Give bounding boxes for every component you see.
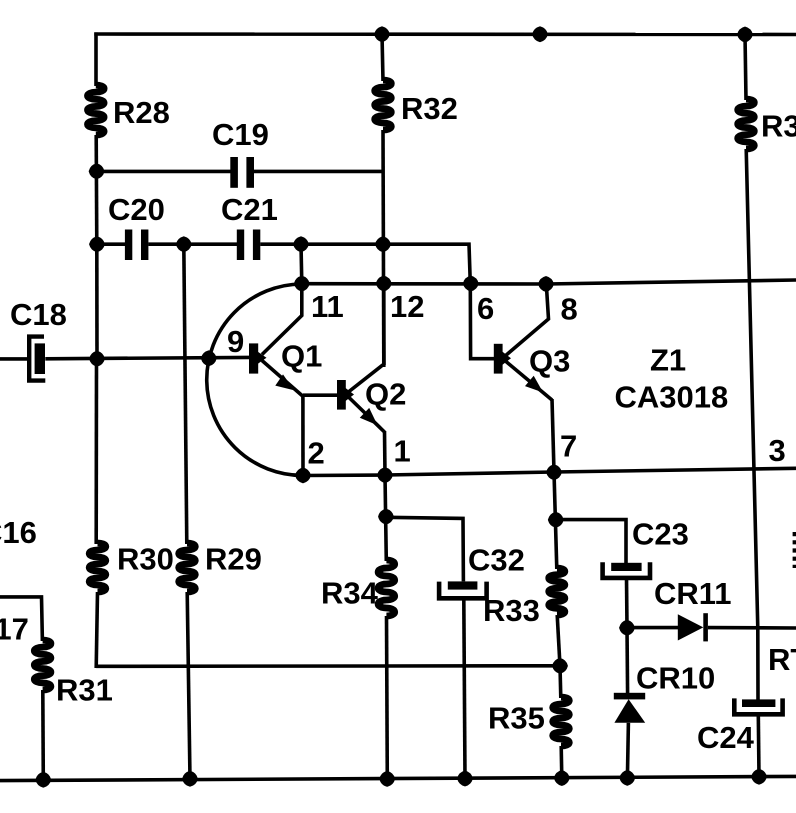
node CR11/CR10 junction <box>620 621 634 635</box>
wire C23 lower lead to CR11 node <box>625 578 629 628</box>
wire Z1 boundary arc around Q1 <box>207 284 303 475</box>
capacitor C23 bottom plate bracket <box>603 562 650 578</box>
svg-text:C17: C17 <box>0 612 29 647</box>
wire V1 R28 to C21 line <box>94 135 98 246</box>
node junction C21 line at pin-11 branch <box>294 237 308 251</box>
arrow Q3 emitter <box>525 376 543 393</box>
svg-text:2: 2 <box>308 436 325 471</box>
diode CR10 <box>614 693 645 700</box>
transistor Q3 base bar <box>494 344 503 374</box>
capacitor C32 top plate <box>448 581 478 589</box>
svg-text:R29: R29 <box>205 542 262 577</box>
node top-rail junction at R36 <box>738 28 752 42</box>
wire CR10 upper lead <box>625 628 629 694</box>
svg-text:CA3018: CA3018 <box>615 380 729 415</box>
capacitor C18 <box>29 337 45 381</box>
wire Q1 collector to pin 11 <box>262 284 302 355</box>
svg-text:C24: C24 <box>697 720 755 755</box>
svg-text:R36: R36 <box>761 109 796 144</box>
wire R36 vertical from rail <box>745 35 746 101</box>
svg-text:C16: C16 <box>0 515 37 550</box>
wire C19 line right segment to R32 vertical <box>254 170 383 174</box>
diode CR11 <box>678 614 704 640</box>
svg-text:1: 1 <box>394 434 411 469</box>
wire V2 below R29 to bottom rail <box>187 592 190 779</box>
wire pin-7 vertical to R33 <box>554 472 557 569</box>
wire C20 line: V1 to C20 <box>97 242 125 246</box>
resistor R32 <box>375 80 392 130</box>
wire Q2 collector to pin 12 <box>349 284 384 392</box>
svg-text:Q2: Q2 <box>365 377 406 412</box>
wire C20 to node <box>148 242 237 246</box>
node junction C20 line on V1 <box>90 237 104 251</box>
wire R31 to bottom rail <box>41 690 45 780</box>
node pin 6 <box>464 277 478 291</box>
svg-text:R32: R32 <box>401 91 458 126</box>
wire CR11 cathode lead to right edge <box>708 626 796 630</box>
wire pin 1/2/7/3 node line <box>303 468 796 475</box>
svg-text:CR10: CR10 <box>636 661 715 696</box>
node bottom rail CR10 <box>621 771 635 785</box>
resistor R34 <box>378 560 395 616</box>
wire C21 to pin6 corner <box>260 244 470 284</box>
svg-text:7: 7 <box>560 429 577 464</box>
node pin 1 <box>378 468 392 482</box>
capacitor C24 bottom plate bracket <box>734 698 782 714</box>
svg-text:Q1: Q1 <box>281 339 322 374</box>
node input line at arc (pin 9) <box>202 352 216 366</box>
wire R33 to junction <box>557 615 560 666</box>
wire R32 vertical from rail <box>382 34 383 81</box>
transistor Q2 junction wedge <box>346 388 355 401</box>
svg-text:R35: R35 <box>488 701 545 736</box>
node junction C20/C21 (R29 branch) <box>177 237 191 251</box>
arrow Q1 emitter <box>275 374 294 390</box>
node pin 12 <box>377 277 391 291</box>
wire Q2 emitter diagonal <box>349 398 385 433</box>
wire Q1 emitter to Q2 base <box>303 393 338 397</box>
wire R29 vertical V2 <box>184 244 187 544</box>
svg-text:R28: R28 <box>113 95 170 130</box>
wire bottom ground rail <box>0 776 796 780</box>
node pin 2 <box>296 469 310 483</box>
svg-text:R30: R30 <box>117 542 174 577</box>
wire V1 C20 line to input line <box>95 244 99 360</box>
capacitor C20 <box>125 230 132 261</box>
wire Q3 emitter diagonal <box>506 362 552 401</box>
wire pin-11 stub <box>299 244 303 283</box>
wire C32 lower lead to bottom rail <box>464 598 465 778</box>
wire junction to R35 <box>558 666 562 698</box>
node junction C21 line at R32 vertical <box>376 237 390 251</box>
node bottom rail R35 <box>555 771 569 785</box>
resistor R31 <box>34 640 51 690</box>
node top-rail junction at pin-8 branch <box>533 27 547 41</box>
wire R34 to bottom rail <box>385 616 389 779</box>
node R33/R35 junction <box>553 659 567 673</box>
arrow Q2 emitter <box>360 408 378 425</box>
wire R30 bottom to corner <box>96 592 97 668</box>
node pin 8 <box>539 277 553 291</box>
capacitor C24 top plate <box>742 699 775 707</box>
dashed edge marks (clipped component) <box>793 532 796 568</box>
svg-text:Q3: Q3 <box>529 344 570 379</box>
transistor Q1 junction wedge <box>258 352 267 365</box>
wire Q1 emitter diagonal <box>262 361 303 397</box>
svg-text:C20: C20 <box>108 192 165 227</box>
wire C32 branch horizontal <box>386 517 463 581</box>
svg-text:12: 12 <box>390 289 424 324</box>
resistor R29 <box>179 543 196 592</box>
node bottom rail R29 <box>183 772 197 786</box>
wire pin-1 vertical down to R34 <box>385 475 386 561</box>
wire input lead left of C18 <box>0 357 28 361</box>
wire pin-6 vertical and Q3 base lead <box>470 284 494 359</box>
svg-text:R33: R33 <box>483 593 540 628</box>
capacitor C21 <box>237 230 244 261</box>
svg-text:Z1: Z1 <box>650 343 686 378</box>
node junction C19 line on V1 <box>90 165 104 179</box>
wire C23 branch horizontal <box>556 520 626 563</box>
svg-text:8: 8 <box>561 292 578 327</box>
svg-text:C23: C23 <box>632 517 689 552</box>
svg-text:CR11: CR11 <box>654 576 732 611</box>
wire C24 lower lead to bottom rail <box>756 714 760 776</box>
wire R35 to bottom rail <box>559 746 563 778</box>
wire top supply rail <box>94 32 796 36</box>
wire pin-8 horizontal line <box>302 280 796 284</box>
wire CR11 anode lead <box>627 626 679 630</box>
node bottom rail R34 <box>380 772 394 786</box>
resistor R36 <box>738 99 755 149</box>
svg-text:RT1: RT1 <box>768 642 796 677</box>
wire left vertical V1 top <box>94 32 98 86</box>
node pin 11 <box>295 277 309 291</box>
svg-text:C19: C19 <box>212 117 269 152</box>
wire R32 down to Q2 collector corner <box>381 130 385 367</box>
svg-text:C18: C18 <box>10 297 67 332</box>
capacitor C23 top plate <box>611 563 641 571</box>
transistor Q1 base bar <box>249 343 258 373</box>
wire Q1 emitter node down to pin 2 <box>301 395 305 476</box>
wire R36 down through pin-3 crossing to C24 <box>746 149 758 700</box>
node bottom rail C24 <box>752 770 766 784</box>
resistor R28 <box>87 85 104 135</box>
svg-text:3: 3 <box>769 433 786 468</box>
svg-text:9: 9 <box>227 324 244 359</box>
svg-text:11: 11 <box>311 289 344 324</box>
capacitor C32 bottom plate bracket <box>439 582 487 599</box>
wire V1 R30 segment <box>94 359 98 544</box>
svg-text:6: 6 <box>477 291 494 326</box>
node C23 branch on pin-7 vertical <box>549 513 563 527</box>
svg-text:C32: C32 <box>468 543 525 578</box>
wire CR10 lower lead to bottom rail <box>627 723 628 779</box>
svg-text:C21: C21 <box>221 192 278 227</box>
resistor R35 <box>553 697 570 746</box>
transistor Q3 junction wedge <box>503 352 512 365</box>
wire C19 line left segment <box>97 170 231 174</box>
transistor Q2 base bar <box>337 380 346 410</box>
resistor R33 <box>549 568 565 615</box>
node C32 branch on pin-1 vertical <box>379 510 393 524</box>
node bottom rail C32 <box>458 772 472 786</box>
wire left C17 branch horizontal <box>0 597 42 641</box>
node input line at V1 <box>90 352 104 366</box>
node top-rail junction at R32 <box>375 27 389 41</box>
capacitor C19 <box>230 157 238 188</box>
wire input line C18 to Q1 base <box>45 357 249 358</box>
node pin 7 <box>547 465 561 479</box>
wire Q2 emitter down to pin 1 <box>383 431 387 475</box>
wire Q3 emitter down to pin 7 <box>552 399 554 472</box>
svg-text:R31: R31 <box>56 673 113 708</box>
resistor R30 <box>89 543 106 592</box>
node bottom rail R31 <box>37 773 51 787</box>
svg-text:R34: R34 <box>321 576 379 611</box>
wire Q3 collector to pin 8 <box>506 284 549 355</box>
wire R30 lower horizontal to R33/R35 junction <box>96 664 560 668</box>
